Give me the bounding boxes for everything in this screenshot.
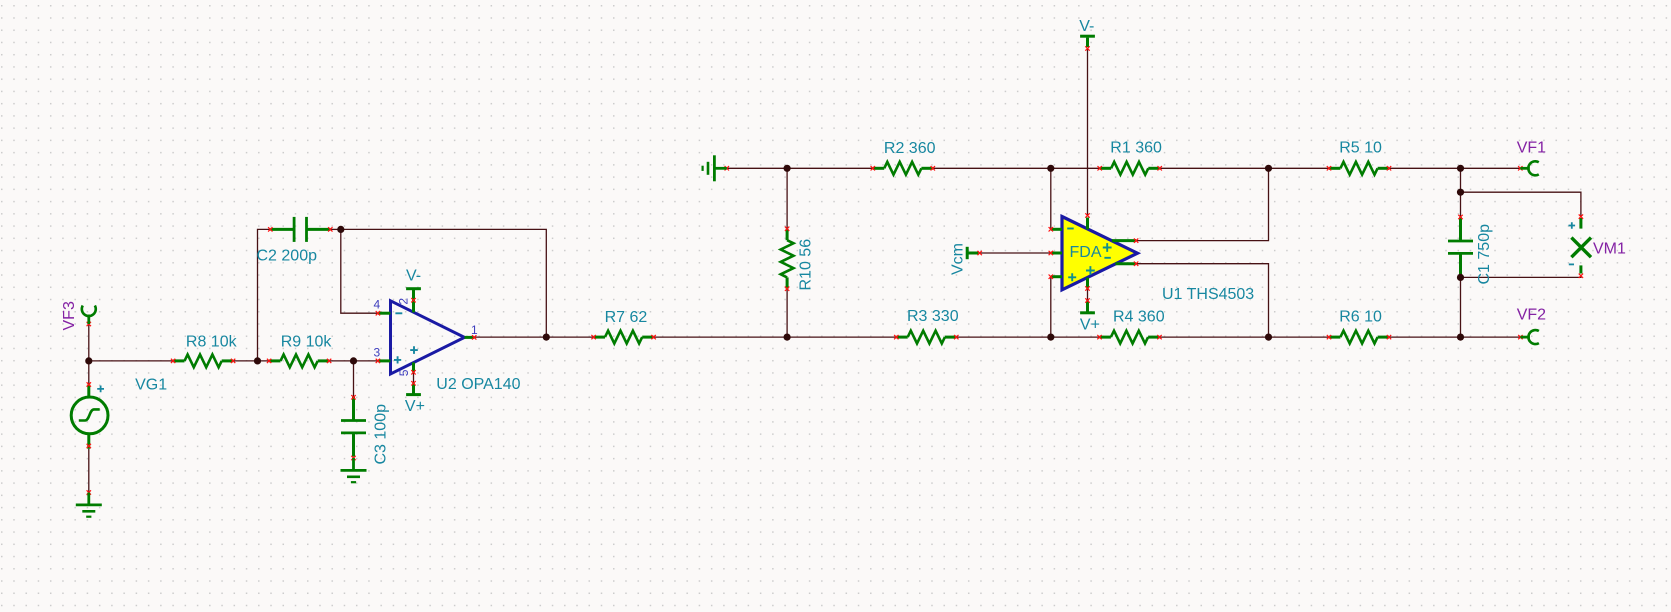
svg-text:VF2: VF2 xyxy=(1517,307,1546,324)
svg-text:R10 56: R10 56 xyxy=(798,239,815,291)
wire FDA noninverting input to bottom rail xyxy=(1050,277,1052,337)
wire C1 bottom node to VF2 rail xyxy=(1460,277,1462,337)
wire U2 V+ pin link xyxy=(413,372,415,383)
capacitor C1 xyxy=(1448,217,1473,277)
FDA U1 pins xyxy=(1049,213,1139,312)
wire C3 branch drop xyxy=(353,361,355,397)
svg-text:Vcm: Vcm xyxy=(949,243,966,275)
wire feedback top to output column xyxy=(341,229,547,337)
wire bottom rail segment U2 output to R7 xyxy=(474,336,593,338)
svg-text:U2 OPA140: U2 OPA140 xyxy=(436,376,520,393)
power terminal V+ below FDA xyxy=(1080,312,1095,314)
node terminal VF1 xyxy=(1518,161,1539,175)
svg-text:V-: V- xyxy=(1079,18,1094,35)
wire Vcm to FDA xyxy=(980,252,1051,254)
wire bottom rail segment R6 to VF2 xyxy=(1389,336,1520,338)
junction node dots xyxy=(85,357,92,364)
wire top rail segment R5 to VF1 xyxy=(1389,167,1520,169)
node terminal VF3 xyxy=(82,306,96,327)
svg-text:5: 5 xyxy=(397,369,411,376)
svg-text:VG1: VG1 xyxy=(135,377,167,394)
power terminal Vcm xyxy=(967,247,982,259)
wire bottom rail segment R7 to R3 xyxy=(654,336,897,338)
resistor R7 xyxy=(591,331,655,344)
ground left of R2 xyxy=(703,155,729,181)
svg-text:VF3: VF3 xyxy=(61,301,78,330)
svg-text:C3 100p: C3 100p xyxy=(372,404,389,465)
wire VM1 minus to C1 bottom node xyxy=(1461,276,1581,278)
node terminal VF2 xyxy=(1518,330,1539,344)
FDA U1 triangle xyxy=(1062,217,1138,290)
resistor R6 xyxy=(1327,331,1391,344)
svg-text:U1 THS4503: U1 THS4503 xyxy=(1162,286,1254,303)
svg-text:R7 62: R7 62 xyxy=(605,309,648,326)
svg-text:R2 360: R2 360 xyxy=(884,140,936,157)
FDA U1 polarity marks xyxy=(1067,229,1111,282)
svg-text:4: 4 xyxy=(374,297,381,311)
resistor R9 xyxy=(267,355,331,368)
voltage source VG1 xyxy=(71,382,108,448)
svg-text:V+: V+ xyxy=(1080,317,1100,334)
wire input row R9 to U2 pin3 xyxy=(329,360,378,362)
wire C2 right to node xyxy=(330,228,341,230)
svg-text:V-: V- xyxy=(406,268,421,285)
op-amp U2 polarity marks xyxy=(394,313,418,363)
wire node to VG1 top xyxy=(88,361,90,385)
svg-text:3: 3 xyxy=(374,345,381,359)
wire VF3 terminal drop xyxy=(88,324,90,361)
resistor R2 xyxy=(871,162,935,175)
svg-text:VM1: VM1 xyxy=(1593,241,1626,258)
svg-text:1: 1 xyxy=(471,323,478,337)
wire VG1 plus pin xyxy=(87,385,90,398)
svg-text:R5 10: R5 10 xyxy=(1339,140,1382,157)
capacitor C2 xyxy=(270,217,330,242)
power terminal V+ below U2 xyxy=(406,394,421,396)
wire C2 left branch xyxy=(258,229,271,361)
capacitor C3 xyxy=(341,397,366,457)
svg-text:VF1: VF1 xyxy=(1517,140,1546,157)
resistor R5 xyxy=(1327,162,1391,175)
svg-text:R6 10: R6 10 xyxy=(1339,309,1382,326)
resistor R4 xyxy=(1097,331,1161,344)
wire R10 top xyxy=(786,168,788,228)
resistor R8 xyxy=(171,355,235,368)
wire top rail segment R1 to R5 xyxy=(1160,167,1329,169)
wire top rail segment ground to R2 xyxy=(727,167,873,169)
svg-text:2: 2 xyxy=(396,298,410,305)
wire input row R8 to R9 xyxy=(233,360,269,362)
svg-text:C1 750p: C1 750p xyxy=(1476,224,1493,285)
wire R10 bottom xyxy=(786,289,788,337)
resistor R1 xyxy=(1098,162,1162,175)
op-amp U2 triangle xyxy=(391,301,465,374)
power terminal V- above U2 xyxy=(406,288,421,290)
wire FDA output plus to top rail xyxy=(1136,168,1268,240)
wire branch to VM1 plus xyxy=(1461,192,1581,216)
ground below C3 xyxy=(341,456,367,482)
power terminal V- above FDA xyxy=(1080,36,1095,51)
svg-text:C2 200p: C2 200p xyxy=(257,247,318,264)
wire VF1 node down to C1 xyxy=(1460,168,1462,217)
wire FDA V+ pin link xyxy=(1087,289,1089,301)
svg-text:R8 10k: R8 10k xyxy=(186,333,238,350)
resistor R10 vertical xyxy=(781,227,794,291)
wire top rail to FDA inverting input xyxy=(1050,168,1052,229)
voltmeter VM1 xyxy=(1569,214,1592,278)
svg-text:R3 330: R3 330 xyxy=(907,308,959,325)
wire node to U2 pin4 xyxy=(341,229,378,313)
wire top rail segment R2 to R1 xyxy=(933,167,1100,169)
wire input row VF3 node to R8 xyxy=(89,360,173,362)
wire VG1 bottom to ground xyxy=(88,449,90,493)
svg-text:R4 360: R4 360 xyxy=(1113,309,1165,326)
svg-text:R9 10k: R9 10k xyxy=(281,333,333,350)
wire bottom rail segment R4 to R6 xyxy=(1160,336,1330,338)
ground below VG1 xyxy=(76,490,102,516)
wire bottom rail segment R3 to R4 xyxy=(956,336,1099,338)
svg-text:V+: V+ xyxy=(405,398,425,415)
op-amp U2 pins xyxy=(376,289,477,394)
wire FDA V- supply drop xyxy=(1087,49,1089,216)
svg-text:FDA: FDA xyxy=(1070,244,1102,261)
wire FDA output minus to bottom rail xyxy=(1136,264,1268,337)
resistor R3 xyxy=(894,331,958,344)
svg-text:R1 360: R1 360 xyxy=(1110,140,1162,157)
